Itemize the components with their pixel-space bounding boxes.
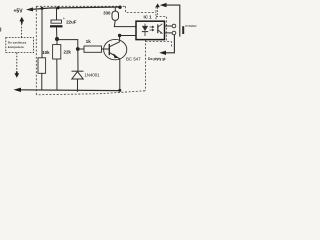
arrow: note box down arrow to ground [14,71,19,77]
wire: 330 bottom to IC1 anode pin [114,20,136,26]
label BC 547 [126,57,141,62]
wire: junction elbow to base node [57,40,78,49]
scan edge artifact left [0,28,2,32]
label 1N4001 [85,73,101,78]
wire: top-right elbow from plug [163,5,180,36]
svg-text:Do płyty gł.: Do płyty gł. [148,57,166,61]
node: emitter-ground junction [118,89,121,92]
label Do plyty gl. [148,57,166,61]
wire: bottom pin down elbow [164,35,175,53]
resistor 330 [112,11,119,20]
svg-text:POWER: POWER [185,24,197,28]
wire: diode to ground [77,79,79,92]
arrow: to +5VSB pointing left [160,3,167,7]
node: rail end dot [118,6,121,9]
label 10k [42,50,50,55]
ground wire bottom [17,89,120,92]
svg-text:komputera: komputera [8,45,24,49]
arrow: small up arrow at boundary top right [155,3,159,7]
phototransistor inside IC1 [158,24,163,34]
+5V label [14,9,24,15]
svg-text:BC 547: BC 547 [126,57,141,62]
transistor Q1 BC547 [104,39,127,59]
arrow: to motherboard pointing left [159,51,166,55]
wire: base node to 1k [78,48,84,50]
node: rail junction at 22uF branch [57,6,60,9]
+5V rail arrow [26,7,33,11]
svg-text:*: * [63,16,65,21]
light arrows inside IC1 [150,26,154,31]
svg-text:22uF: 22uF [66,20,77,25]
wire: base node to diode [77,49,79,71]
dashed link: note box to down arrow [16,53,18,72]
label 22k [64,50,72,55]
wire: 22uF bottom to junction [56,27,58,38]
wire: rail to 330 top [114,7,116,11]
wire: IC1 emitter to bottom pin circle [165,32,173,34]
node: cap/22k junction [55,37,59,41]
wire: IC1 collector to top pin circle [165,25,173,27]
wire: 1k to transistor base [102,48,110,50]
svg-text:+5V: +5V [14,9,24,15]
capacitor C1 22uF electrolytic [50,20,63,27]
svg-text:1N4001: 1N4001 [85,73,101,78]
wire: junction to 22k top [56,39,58,45]
resistor 10k [38,58,46,74]
svg-text:330: 330 [103,11,111,16]
svg-text:22k: 22k [64,50,72,55]
POWER connector plug [182,26,184,34]
svg-text:IC 1: IC 1 [144,15,153,20]
resistor 1k [84,46,102,52]
wire: collector up to LED cathode node [119,36,121,42]
dashed boundary box (PC side) [36,6,171,95]
wire: rail to 10k resistor [41,8,43,57]
wire: 10k bottom to ground [41,73,43,90]
label IC 1 [144,15,153,20]
wire: +5V rail [30,7,121,10]
label 22uF with asterisk [63,16,77,24]
svg-text:10k: 10k [42,50,50,55]
dashed drop below up arrow [157,7,159,16]
wire: collector node to IC1 cathode pin [120,35,136,37]
pin circle top [172,24,176,28]
node: collector junction [118,34,121,37]
label POWER [185,24,197,28]
node: base node junction [76,47,80,51]
node: rail junction at 10k branch [41,7,44,10]
label 330 [103,11,111,16]
op-amp IC1 optocoupler box [136,21,165,39]
pin circle bottom [172,31,176,35]
note box text [8,41,27,49]
resistor 22k [53,45,61,59]
LED inside IC1 [142,24,148,36]
wire: rail to 22uF top [56,8,58,20]
label 1k [86,39,91,44]
svg-text:1k: 1k [86,39,91,44]
diode D1 1N4001 [72,71,84,79]
wire: emitter to ground [119,59,121,91]
dashed link: up arrow to note box [21,24,23,38]
note box dashed [6,38,34,53]
arrow: note box up arrow to +5V [19,17,24,24]
wire: 22k bottom to ground [56,59,58,90]
ground wire left arrowhead [14,88,22,92]
